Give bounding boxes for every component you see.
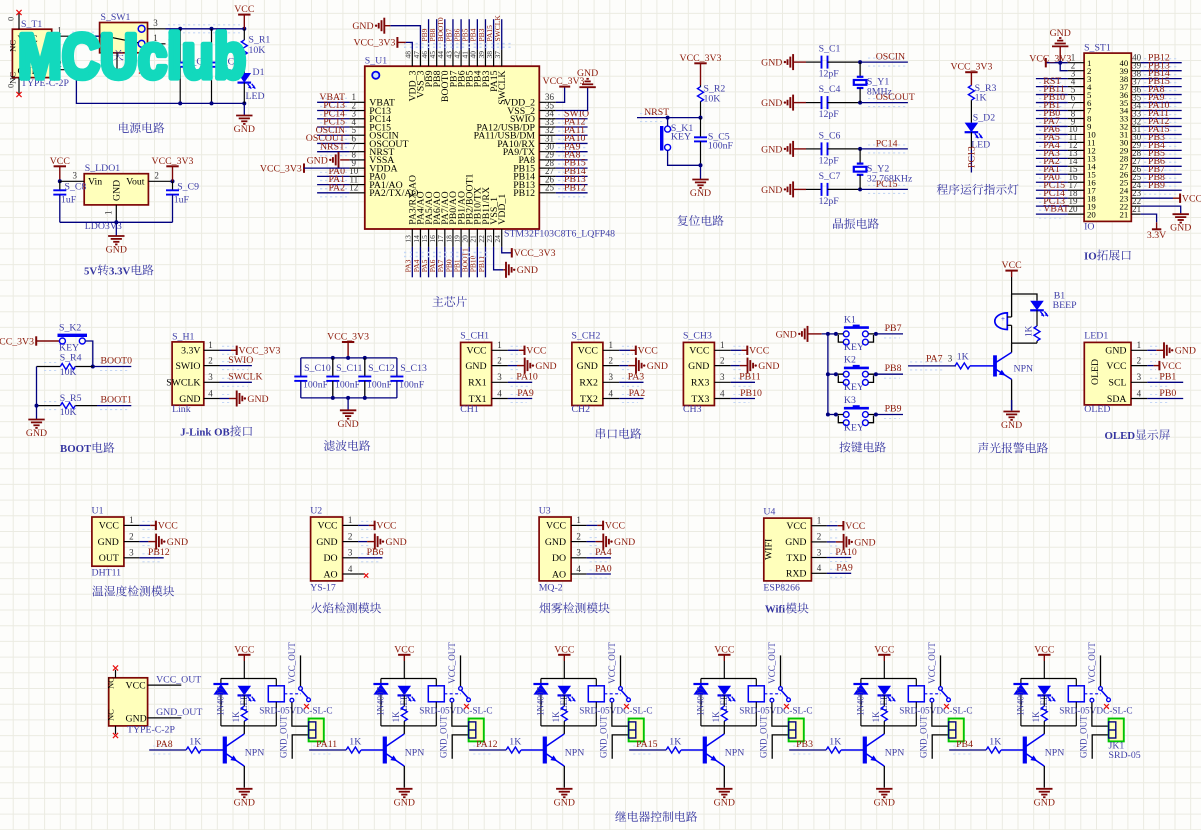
wire and net label BOOT0 at U1 pin 44 bbox=[444, 19, 446, 49]
svg-text:RX1: RX1 bbox=[468, 378, 487, 389]
power port VCC at U3 pin 1 bbox=[590, 520, 601, 522]
svg-text:NRST: NRST bbox=[644, 107, 669, 118]
power port VCC_3V3 at U1 pin 48 bbox=[397, 41, 405, 43]
display LED1 OLED bbox=[1084, 342, 1131, 405]
svg-text:GND: GND bbox=[785, 537, 806, 548]
relay unit 3: collector wire bbox=[563, 726, 565, 734]
ground GND at LED1 pin 1 bbox=[1150, 345, 1158, 347]
MCU S_U1 STM32F103C8T6_LQFP48 bbox=[365, 66, 540, 229]
relay unit 6: green terminal block bbox=[1109, 719, 1124, 742]
svg-text:1N4007: 1N4007 bbox=[696, 687, 706, 716]
svg-text:12pF: 12pF bbox=[819, 69, 840, 80]
junction filter top at C12 bbox=[363, 356, 367, 360]
relay unit 4: dashed link bbox=[764, 693, 781, 695]
wire and net label PA3 at U1 pin 13 bbox=[411, 247, 413, 277]
title 主芯片 bbox=[432, 296, 443, 306]
svg-text:VCC: VCC bbox=[158, 521, 178, 532]
wire VCC from S_T1 to S_SW1 bbox=[72, 31, 96, 33]
title 火焰检测模块 bbox=[311, 602, 322, 613]
svg-text:100nF: 100nF bbox=[708, 140, 734, 151]
relay unit 1: LED bbox=[238, 686, 252, 696]
capacitor S_C11 100nF bbox=[332, 358, 334, 377]
svg-text:2: 2 bbox=[129, 531, 134, 541]
wire NRST net bbox=[640, 113, 664, 115]
filter bottom rail bbox=[301, 397, 397, 399]
junction LDO GND node bbox=[114, 220, 118, 224]
relay unit 4: green terminal block bbox=[789, 719, 804, 742]
wire and net label PA15 at U1 pin 38 bbox=[493, 19, 495, 49]
black bracket left K1 bbox=[836, 334, 843, 342]
wire and net label PA8 at U1 pin 29 bbox=[558, 155, 586, 157]
svg-text:GND: GND bbox=[179, 394, 200, 405]
svg-text:3: 3 bbox=[817, 547, 822, 557]
relay unit 4: GND_OUT wire bbox=[772, 735, 788, 759]
svg-text:VCC_3V3: VCC_3V3 bbox=[1029, 54, 1071, 65]
svg-text:VCC_OUT: VCC_OUT bbox=[447, 642, 457, 684]
svg-text:Vin: Vin bbox=[88, 177, 102, 188]
relay unit 2: LED bbox=[398, 686, 412, 696]
svg-text:S_C9: S_C9 bbox=[177, 181, 199, 192]
wire and net label PA9 at S_ST1 pin 35 bbox=[1144, 98, 1178, 100]
relay unit 2: base drive net PA11 and 1K bbox=[313, 745, 331, 747]
relay unit 5: bottom rail bbox=[861, 725, 916, 727]
svg-text:PA9: PA9 bbox=[517, 388, 534, 399]
title 滤波电路 bbox=[324, 440, 335, 451]
svg-text:GND: GND bbox=[337, 419, 358, 430]
ground GND at S_C1 bbox=[792, 54, 794, 70]
svg-text:GND: GND bbox=[234, 124, 255, 135]
relay unit 5: LED bbox=[878, 686, 892, 696]
wire and net label PC15 bbox=[868, 184, 906, 186]
power port 3.3V at S_ST1 pin 21 bbox=[1141, 214, 1157, 222]
wire and net label PA0 at S_ST1 pin 16 bbox=[1039, 177, 1064, 179]
svg-text:S_U1: S_U1 bbox=[365, 55, 387, 66]
junction keys rail K2 bbox=[826, 372, 830, 376]
relay unit 4: VCC_OUT pole bbox=[780, 655, 782, 686]
junction BOOT0 bbox=[91, 365, 95, 369]
wire and net label PB12 at S_ST1 pin 40 bbox=[1144, 58, 1178, 60]
svg-text:GND_OUT: GND_OUT bbox=[279, 715, 289, 758]
relay unit 4: NO contact wire to connector bbox=[772, 702, 789, 726]
svg-text:3.3V: 3.3V bbox=[1147, 230, 1166, 241]
svg-text:ESP8266: ESP8266 bbox=[763, 583, 800, 594]
svg-text:10K: 10K bbox=[249, 45, 266, 56]
wire key to NRST node bbox=[667, 118, 669, 127]
relay unit 6: base drive net PB4 and 1K bbox=[953, 745, 971, 747]
junction at S_C1 bbox=[858, 60, 862, 64]
svg-text:S_R4: S_R4 bbox=[60, 353, 82, 364]
svg-text:1K: 1K bbox=[551, 711, 561, 723]
svg-text:VCC_3V3: VCC_3V3 bbox=[152, 156, 194, 167]
net label PA10 at U4 pin 3 bbox=[830, 553, 848, 555]
relay unit 2: coil box bbox=[428, 686, 444, 702]
svg-text:PB12: PB12 bbox=[513, 188, 535, 199]
svg-text:3: 3 bbox=[948, 354, 953, 364]
relay unit 2: bottom rail bbox=[381, 725, 436, 727]
svg-text:37: 37 bbox=[493, 51, 502, 59]
title 声光报警电路 bbox=[978, 442, 989, 453]
relay unit 5: base drive net PB3 and 1K bbox=[793, 745, 811, 747]
ground GND (BOOT) bbox=[28, 419, 44, 421]
connector S_CH2 serial header bbox=[572, 342, 603, 405]
svg-text:CH1: CH1 bbox=[460, 404, 479, 415]
svg-text:PA10: PA10 bbox=[516, 372, 538, 383]
relay unit 1: red x on NC contact bbox=[304, 704, 309, 709]
wire and net label PB3 at U1 pin 39 bbox=[484, 19, 486, 49]
relay unit 6: resistor 1K vertical bbox=[1043, 695, 1045, 706]
net label PA2 at S_CH2 pin 4 bbox=[622, 394, 638, 396]
wire and net label PA6 at U1 pin 16 bbox=[436, 247, 438, 277]
title 按键电路 bbox=[839, 442, 850, 453]
wire and net label PB13 at S_ST1 pin 39 bbox=[1144, 66, 1178, 68]
svg-text:0: 0 bbox=[6, 17, 16, 21]
svg-text:VCC: VCC bbox=[786, 521, 806, 532]
wire and net label PA5 at S_ST1 pin 11 bbox=[1039, 137, 1064, 139]
pin 1 VCC of S_T1 bbox=[52, 35, 70, 37]
power port VCC (power circuit) bbox=[238, 14, 250, 16]
svg-text:K3: K3 bbox=[844, 395, 856, 406]
svg-text:LED: LED bbox=[246, 91, 265, 102]
svg-text:GND: GND bbox=[688, 361, 709, 372]
svg-text:1K: 1K bbox=[1025, 325, 1035, 337]
svg-text:NC: NC bbox=[106, 677, 116, 689]
svg-text:1N4007: 1N4007 bbox=[536, 687, 546, 716]
relay unit 1: armature and contacts bbox=[299, 687, 303, 691]
relay unit 2: power port VCC bbox=[398, 654, 410, 656]
svg-text:GND: GND bbox=[167, 537, 188, 548]
relay unit 1: dashed link bbox=[284, 693, 301, 695]
wire and net label PB11 at S_ST1 pin 5 bbox=[1039, 90, 1064, 92]
capacitor S_C1 12pF bbox=[806, 61, 822, 63]
svg-text:GND: GND bbox=[394, 797, 415, 808]
wire U1 VSS_2 to GND bbox=[556, 87, 588, 110]
svg-text:S_CH1: S_CH1 bbox=[460, 331, 489, 342]
svg-text:U1: U1 bbox=[92, 506, 104, 517]
ground GND at U2 pin 2 bbox=[361, 537, 369, 539]
svg-text:25: 25 bbox=[545, 183, 555, 193]
svg-text:GND: GND bbox=[761, 98, 782, 109]
ground GND at S_H1 pin 4 bbox=[222, 394, 232, 396]
svg-text:GND: GND bbox=[1105, 346, 1126, 357]
relay unit 2: top rail bbox=[381, 678, 436, 680]
wire reset gnd stem bbox=[700, 165, 702, 179]
svg-text:PA8: PA8 bbox=[156, 739, 173, 750]
wire and net label PB10 at S_ST1 pin 6 bbox=[1039, 98, 1064, 100]
ground GND at S_CH1 pin 2 bbox=[511, 361, 519, 363]
svg-text:VCC: VCC bbox=[1106, 361, 1126, 372]
power port VCC_3V3 at S_H1 pin 1 bbox=[222, 345, 234, 347]
wire U1 VDD_3 to VCC_3V3 bbox=[406, 42, 413, 49]
wire and net label PB0 at U1 pin 18 bbox=[452, 247, 454, 277]
connector S_CH3 serial header bbox=[683, 342, 714, 405]
relay unit 3: dashed link bbox=[604, 693, 621, 695]
svg-text:4: 4 bbox=[576, 564, 581, 574]
wire and net label PB8 at U1 pin 45 bbox=[436, 19, 438, 49]
svg-text:PB9: PB9 bbox=[1148, 180, 1165, 191]
wire and net label PB5 at U1 pin 41 bbox=[468, 19, 470, 49]
junction Vin node bbox=[58, 179, 62, 183]
relay unit 4: emitter wire to GND bbox=[723, 766, 725, 788]
svg-text:OSCIN: OSCIN bbox=[876, 52, 905, 63]
svg-text:VCC_3V3: VCC_3V3 bbox=[950, 62, 992, 73]
svg-text:GND: GND bbox=[352, 21, 373, 32]
relay unit 1: emitter wire to GND bbox=[243, 766, 245, 788]
svg-text:NC: NC bbox=[7, 40, 17, 52]
relay unit 6: coil box bbox=[1068, 686, 1084, 702]
LED D1 bbox=[238, 73, 252, 83]
svg-text:PA10: PA10 bbox=[835, 547, 857, 558]
pin 3 Vin bbox=[60, 180, 84, 182]
svg-text:SRD-05VDC-SL-C: SRD-05VDC-SL-C bbox=[419, 707, 492, 717]
svg-text:GND: GND bbox=[126, 713, 147, 724]
relay unit 3: resistor 1K vertical bbox=[563, 695, 565, 706]
black bracket right K2 bbox=[868, 374, 876, 382]
svg-text:TX1: TX1 bbox=[469, 394, 487, 405]
wire and net label OSCOUT bbox=[868, 98, 906, 100]
stub pin top (unconnected) bbox=[115, 670, 117, 678]
svg-text:SWCLK: SWCLK bbox=[493, 15, 502, 42]
relay unit 5: GND_OUT wire bbox=[932, 735, 948, 759]
svg-text:VCC: VCC bbox=[1161, 361, 1181, 372]
svg-text:GND: GND bbox=[577, 68, 598, 79]
svg-text:S_ST1: S_ST1 bbox=[1084, 43, 1111, 54]
svg-text:PA12: PA12 bbox=[476, 739, 498, 750]
svg-text:U4: U4 bbox=[763, 507, 775, 518]
wire and net label PA8 at S_ST1 pin 36 bbox=[1144, 90, 1178, 92]
svg-text:NPN: NPN bbox=[725, 747, 745, 758]
svg-text:100nF: 100nF bbox=[335, 380, 361, 391]
wire and net label OSCIN bbox=[868, 57, 906, 59]
svg-text:PC14: PC14 bbox=[876, 138, 898, 149]
svg-text:VCC_OUT: VCC_OUT bbox=[156, 674, 201, 685]
connector output TYPE-C-2P bbox=[109, 678, 148, 726]
dot field above U1 bbox=[404, 43, 512, 45]
title 串口电路 bbox=[596, 428, 606, 439]
svg-text:4: 4 bbox=[497, 388, 502, 398]
title 复位电路 bbox=[677, 215, 688, 226]
svg-text:GND: GND bbox=[517, 265, 538, 276]
wire filter gnd stem bbox=[347, 398, 349, 410]
svg-text:VCC: VCC bbox=[578, 346, 598, 357]
svg-text:PB12: PB12 bbox=[148, 547, 170, 558]
svg-text:NPN: NPN bbox=[565, 747, 585, 758]
connector S_H1 J-Link bbox=[172, 342, 204, 405]
svg-text:20: 20 bbox=[1069, 204, 1079, 214]
svg-text:VCC_3V3: VCC_3V3 bbox=[327, 332, 369, 343]
svg-text:VCC: VCC bbox=[99, 521, 119, 532]
wire keys rail to K3 bbox=[828, 414, 836, 416]
svg-text:3: 3 bbox=[609, 372, 614, 382]
svg-text:BOOT0: BOOT0 bbox=[101, 356, 133, 367]
svg-text:SDA: SDA bbox=[1107, 394, 1127, 405]
ground GND (power circuit) bbox=[236, 115, 252, 117]
wire and net label PB1 at S_ST1 pin 7 bbox=[1039, 106, 1064, 108]
svg-text:VCC_3V3: VCC_3V3 bbox=[260, 163, 302, 174]
svg-text:AO: AO bbox=[552, 569, 566, 580]
junction filter bottom at C12 bbox=[363, 396, 367, 400]
svg-text:100nF: 100nF bbox=[399, 380, 425, 391]
relay unit 4: coil box bbox=[748, 686, 764, 702]
relay unit 1: diode 1N4007 bbox=[220, 679, 222, 685]
svg-text:IO: IO bbox=[1084, 222, 1094, 233]
wire and net label OSCOUT at U1 pin 6 bbox=[320, 138, 347, 140]
svg-text:3.3V: 3.3V bbox=[181, 346, 200, 357]
svg-text:VCC: VCC bbox=[234, 4, 254, 15]
svg-text:VCC: VCC bbox=[638, 346, 658, 357]
svg-text:PB4: PB4 bbox=[956, 739, 973, 750]
svg-text:32.768KHz: 32.768KHz bbox=[867, 173, 913, 184]
junction bottom rail at C2 bbox=[178, 101, 182, 105]
svg-text:1: 1 bbox=[497, 340, 502, 350]
svg-text:1K: 1K bbox=[391, 711, 401, 723]
svg-text:12pF: 12pF bbox=[819, 109, 840, 120]
svg-text:DHT11: DHT11 bbox=[92, 568, 122, 579]
svg-text:WIFI: WIFI bbox=[764, 539, 775, 560]
svg-text:IO: IO bbox=[1084, 251, 1097, 263]
svg-text:VCC_OUT: VCC_OUT bbox=[607, 642, 617, 684]
svg-text:VCC: VCC bbox=[394, 644, 414, 655]
relay unit 2: diode 1N4007 bbox=[380, 679, 382, 685]
power port VCC_3V3 at S_ST1 pin 1 bbox=[1046, 62, 1068, 64]
svg-text:PA3: PA3 bbox=[628, 372, 645, 383]
svg-text:PB10: PB10 bbox=[740, 388, 762, 399]
svg-text:VCC: VCC bbox=[526, 346, 546, 357]
power port VCC_3V3 (filter) bbox=[342, 341, 354, 343]
svg-text:VCC: VCC bbox=[317, 521, 337, 532]
relay unit 4: top rail bbox=[701, 678, 756, 680]
regulator S_LDO1 LDO3V3 bbox=[84, 174, 148, 205]
svg-text:21: 21 bbox=[1120, 209, 1129, 219]
relay unit 3: red x on NC contact bbox=[624, 704, 629, 709]
net label VCC_OUT bbox=[148, 684, 182, 686]
relay unit 5: transistor NPN bbox=[863, 737, 867, 764]
svg-text:PB8: PB8 bbox=[885, 363, 902, 374]
svg-text:NC: NC bbox=[106, 709, 116, 721]
svg-text:4: 4 bbox=[817, 563, 822, 573]
pin 4 stub below S_SW1 (unconnected) bbox=[116, 53, 118, 70]
relay unit 4: transistor NPN bbox=[703, 737, 707, 764]
junction BOOT gnd bbox=[35, 404, 39, 408]
svg-text:KEY: KEY bbox=[671, 132, 691, 143]
svg-text:SWIO: SWIO bbox=[228, 355, 253, 366]
relay unit 3: emitter wire to GND bbox=[563, 766, 565, 788]
wire and net label PB9 at S_ST1 pin 24 bbox=[1144, 185, 1178, 187]
svg-text:S_R5: S_R5 bbox=[60, 393, 82, 404]
svg-text:VCC_OUT: VCC_OUT bbox=[767, 642, 777, 684]
svg-text:1K: 1K bbox=[509, 737, 521, 748]
svg-text:VCC: VCC bbox=[1034, 644, 1054, 655]
wire and net label PA0 at U1 pin 10 bbox=[320, 171, 347, 173]
junction and wire PB9 bbox=[874, 413, 878, 417]
svg-text:1K: 1K bbox=[989, 737, 1001, 748]
svg-text:PA9: PA9 bbox=[836, 563, 853, 574]
relay unit 6: VCC_OUT pole bbox=[1100, 655, 1102, 686]
svg-text:VCC: VCC bbox=[50, 156, 70, 167]
svg-text:GND: GND bbox=[761, 58, 782, 69]
svg-text:OLED: OLED bbox=[1090, 359, 1101, 385]
svg-text:SRD-05: SRD-05 bbox=[1109, 750, 1141, 761]
svg-text:PB11: PB11 bbox=[739, 372, 761, 383]
ground GND at U3 pin 2 bbox=[590, 537, 598, 539]
relay unit 6: collector wire bbox=[1043, 726, 1045, 734]
svg-text:S_CH2: S_CH2 bbox=[572, 331, 601, 342]
ground GND at U1 pin 35 bbox=[579, 86, 595, 88]
wire and net label PB3 at S_ST1 pin 30 bbox=[1144, 137, 1178, 139]
svg-text:VCC: VCC bbox=[1182, 193, 1201, 204]
svg-text:GND: GND bbox=[112, 180, 123, 201]
svg-text:MQ-2: MQ-2 bbox=[539, 582, 563, 593]
svg-text:2: 2 bbox=[154, 171, 159, 181]
svg-text:VCC_OUT: VCC_OUT bbox=[927, 642, 937, 684]
capacitor S_C7 12pF bbox=[806, 188, 822, 190]
net label PA10 at S_CH1 pin 3 bbox=[511, 377, 529, 379]
svg-text:VCC: VCC bbox=[554, 644, 574, 655]
svg-text:S_D2: S_D2 bbox=[973, 113, 995, 124]
wire GND from S_T1 down to bottom rail bbox=[70, 70, 245, 104]
pin 0 top of S_T1 (unconnected) bbox=[18, 14, 20, 30]
svg-text:GND_OUT: GND_OUT bbox=[439, 715, 449, 758]
relay unit 5: diode 1N4007 bbox=[860, 679, 862, 685]
svg-text:PB11: PB11 bbox=[477, 256, 486, 273]
wire key bottom to gnd rail bbox=[668, 150, 701, 165]
wire and net label PA2 at S_ST1 pin 14 bbox=[1039, 161, 1064, 163]
relay unit 2: emitter wire to GND bbox=[403, 766, 405, 788]
net label PA3 at S_CH2 pin 3 bbox=[622, 377, 640, 379]
relay unit 2: red x on NC contact bbox=[464, 704, 469, 709]
wire and net label PB6 at U1 pin 42 bbox=[460, 19, 462, 49]
dot field below U1 bbox=[404, 252, 490, 254]
svg-text:S_C4: S_C4 bbox=[819, 84, 841, 95]
svg-text:D1: D1 bbox=[253, 67, 265, 78]
power port VCC_3V3 at U1 pin 24 bbox=[511, 248, 513, 257]
relay unit 4: armature and contacts bbox=[779, 687, 783, 691]
capacitor S_C6 12pF bbox=[806, 148, 822, 150]
svg-text:1N4007: 1N4007 bbox=[1016, 687, 1026, 716]
relay unit 5: NO contact wire to connector bbox=[932, 702, 949, 726]
capacitor S_C9 1uF bbox=[172, 181, 174, 190]
power port VCC at U1 pin 1 bbox=[142, 520, 153, 522]
connector S_T1 TYPE-C-2P bbox=[12, 29, 51, 77]
relay unit 5: top rail bbox=[861, 678, 916, 680]
wire and net label PB1 at U1 pin 19 bbox=[460, 247, 462, 277]
svg-text:GND_OUT: GND_OUT bbox=[156, 707, 202, 718]
svg-text:GND: GND bbox=[577, 361, 598, 372]
junction NRST at rail bbox=[699, 116, 703, 120]
relay unit 6: power port VCC bbox=[1038, 654, 1050, 656]
svg-text:12pF: 12pF bbox=[819, 155, 840, 166]
key switch S_K1 bbox=[665, 126, 671, 132]
svg-text:K1: K1 bbox=[844, 314, 856, 325]
wire and net label PA6 at S_ST1 pin 10 bbox=[1039, 129, 1064, 131]
capacitor S_C3 100uF bbox=[211, 29, 213, 63]
svg-text:GND: GND bbox=[98, 537, 119, 548]
junction filter bottom at stem bbox=[346, 396, 350, 400]
pin 0 bottom of S_T1 (unconnected) bbox=[18, 78, 20, 94]
svg-text:OUT: OUT bbox=[99, 553, 119, 564]
wire keys rail to K1 bbox=[828, 333, 836, 335]
svg-text:AO: AO bbox=[323, 569, 337, 580]
wire and net label RST at S_ST1 pin 4 bbox=[1039, 82, 1064, 84]
wire and net label PB5 at S_ST1 pin 28 bbox=[1144, 153, 1178, 155]
svg-text:GND: GND bbox=[535, 361, 556, 372]
svg-text:PA2: PA2 bbox=[328, 182, 345, 193]
svg-text:1K: 1K bbox=[349, 737, 361, 748]
svg-text:GND_OUT: GND_OUT bbox=[1079, 715, 1089, 758]
relay unit 1: VCC_OUT pole bbox=[300, 655, 302, 686]
relay unit 5: ground GND bbox=[876, 788, 892, 790]
svg-text:RX2: RX2 bbox=[579, 378, 598, 389]
wire keys rail to K2 bbox=[828, 373, 836, 375]
